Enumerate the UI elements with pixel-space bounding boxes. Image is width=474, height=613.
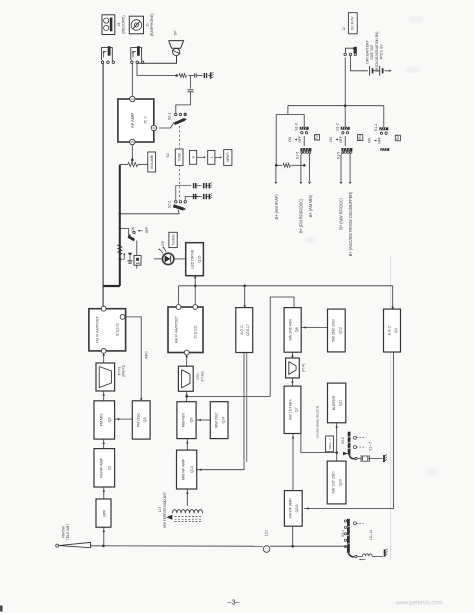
svg-text:S1-6: S1-6 (296, 152, 300, 159)
svg-text:AM IF AMP/DET: AM IF AMP/DET (174, 315, 179, 343)
svg-text:Q4: Q4 (394, 328, 398, 333)
svg-text:MW FERRITE ROD ANT: MW FERRITE ROD ANT (163, 492, 167, 528)
svg-text:L: L (210, 156, 214, 158)
svg-text:SW: SW (396, 135, 400, 140)
svg-text:Q9: Q9 (190, 418, 194, 423)
svg-text:(SFE-F1): (SFE-F1) (122, 365, 126, 377)
svg-text:–3–: –3– (227, 598, 240, 607)
svg-text:IC 2: IC 2 (143, 116, 148, 124)
svg-text:Q3: Q3 (143, 417, 147, 422)
svg-text:L17: L17 (158, 507, 162, 513)
svg-text:SW 2ND OSC: SW 2ND OSC (332, 319, 336, 342)
svg-text:OFF: OFF (339, 136, 343, 143)
svg-text:(EARPHONE): (EARPHONE) (150, 13, 154, 37)
svg-text:AFC: AFC (143, 351, 148, 359)
svg-text:Q16,17: Q16,17 (246, 324, 250, 336)
svg-text:ON: ON (368, 137, 372, 143)
svg-text:J2: J2 (342, 27, 346, 31)
svg-text:SW1—7: SW1—7 (328, 438, 332, 449)
svg-text:BPF: BPF (102, 509, 106, 517)
svg-text:S1-3: S1-3 (294, 123, 298, 130)
svg-text:Q8: Q8 (295, 327, 299, 332)
svg-text:D5: D5 (161, 241, 165, 245)
svg-text:SW 1ST OSC: SW 1ST OSC (332, 471, 336, 494)
svg-text:MW OSC: MW OSC (215, 412, 219, 428)
svg-text:S3-2: S3-2 (341, 437, 345, 444)
svg-text:S2-1: S2-1 (167, 113, 171, 120)
svg-text:B+ (AM MIX): B+ (AM MIX) (308, 194, 313, 217)
svg-text:FM IF AMP/DET: FM IF AMP/DET (95, 316, 100, 344)
svg-text:Q1: Q1 (108, 465, 112, 470)
svg-text:IC1(1/2): IC1(1/2) (194, 325, 198, 339)
svg-text:ON: ON (288, 136, 292, 142)
svg-text:4PCS. 6V: 4PCS. 6V (380, 44, 384, 60)
svg-text:VOLUME: VOLUME (150, 154, 154, 169)
svg-text:Q7: Q7 (295, 407, 299, 412)
svg-text:A G C: A G C (240, 325, 244, 335)
svg-text:SW RF AMP: SW RF AMP (289, 498, 293, 519)
svg-text:LED DRIVE: LED DRIVE (190, 249, 194, 269)
svg-text:ON: ON (131, 226, 135, 231)
svg-text:Q12: Q12 (338, 327, 342, 334)
svg-text:TELE ANT: TELE ANT (66, 523, 70, 540)
svg-text:S3 (SW BAND SELECT): S3 (SW BAND SELECT) (315, 406, 319, 438)
svg-text:Q2: Q2 (108, 417, 112, 422)
svg-text:FM RF AMP: FM RF AMP (99, 457, 103, 477)
svg-text:NEWS: NEWS (226, 152, 230, 162)
svg-text:Q14: Q14 (221, 417, 225, 424)
svg-text:(FT-A2): (FT-A2) (200, 371, 204, 381)
svg-text:S2: S2 (166, 153, 170, 157)
svg-text:SP: SP (173, 30, 178, 35)
svg-text:J1: J1 (146, 23, 150, 27)
svg-text:Q15: Q15 (197, 256, 201, 263)
svg-text:X1—7: X1—7 (368, 442, 372, 451)
svg-text:MW RF AMP: MW RF AMP (181, 458, 185, 480)
svg-text:BUFFER: BUFFER (332, 395, 336, 410)
svg-text:MW: MW (358, 135, 362, 141)
svg-text:OFF: OFF (298, 136, 302, 143)
svg-text:Q10: Q10 (338, 479, 342, 486)
svg-text:DRY BATTERY: DRY BATTERY (365, 40, 369, 64)
svg-text:OFF: OFF (145, 227, 149, 234)
svg-text:IC1(1/2): IC1(1/2) (115, 323, 119, 337)
svg-text:Q5,6: Q5,6 (295, 504, 299, 512)
svg-text:A G C: A G C (388, 325, 392, 335)
svg-text:B+ (MW RF/OSC): B+ (MW RF/OSC) (339, 198, 344, 230)
svg-text:S1-5: S1-5 (337, 152, 341, 159)
svg-text:L21: L21 (264, 530, 268, 536)
svg-text:MW MIX: MW MIX (182, 413, 186, 428)
svg-text:FM: FM (315, 135, 319, 140)
svg-text:TUNING: TUNING (171, 234, 175, 246)
svg-text:Q13: Q13 (190, 466, 194, 473)
svg-text:B+ (AM IF/AF): B+ (AM IF/AF) (274, 194, 279, 220)
svg-text:S2-2: S2-2 (167, 201, 171, 208)
svg-text:(RECORD): (RECORD) (121, 15, 125, 34)
svg-text:SW 1ST MIX: SW 1ST MIX (288, 399, 292, 420)
svg-text:www.petervis.com: www.petervis.com (395, 601, 443, 607)
svg-text:FM OSC: FM OSC (136, 412, 140, 427)
svg-text:L5—11: L5—11 (369, 530, 373, 540)
svg-text:FM MIX: FM MIX (99, 413, 103, 426)
svg-text:ON: ON (329, 136, 333, 142)
svg-text:SIZE "AA": SIZE "AA" (370, 43, 374, 59)
svg-text:OFF: OFF (378, 137, 382, 144)
svg-text:S1-2: S1-2 (335, 123, 339, 130)
svg-text:AF AMP: AF AMP (130, 113, 135, 129)
svg-text:TONE: TONE (178, 152, 182, 162)
svg-text:DC IN 6V: DC IN 6V (350, 16, 354, 30)
svg-text:J3: J3 (117, 23, 121, 27)
svg-text:B+ (FM RF/IF/OSC): B+ (FM RF/IF/OSC) (298, 198, 303, 233)
svg-text:B+ (AGC/SW RF/SW OSC/BUFFER): B+ (AGC/SW RF/SW OSC/BUFFER) (348, 191, 353, 256)
svg-text:SW 2ND MIX: SW 2ND MIX (288, 319, 292, 341)
svg-text:Q11: Q11 (339, 400, 343, 407)
svg-text:(FT-A): (FT-A) (301, 364, 305, 372)
svg-text:(JEITA DESIGNATION R6): (JEITA DESIGNATION R6) (375, 32, 379, 73)
svg-text:S1-1: S1-1 (374, 124, 378, 131)
svg-text:FM/SW: FM/SW (61, 525, 65, 537)
